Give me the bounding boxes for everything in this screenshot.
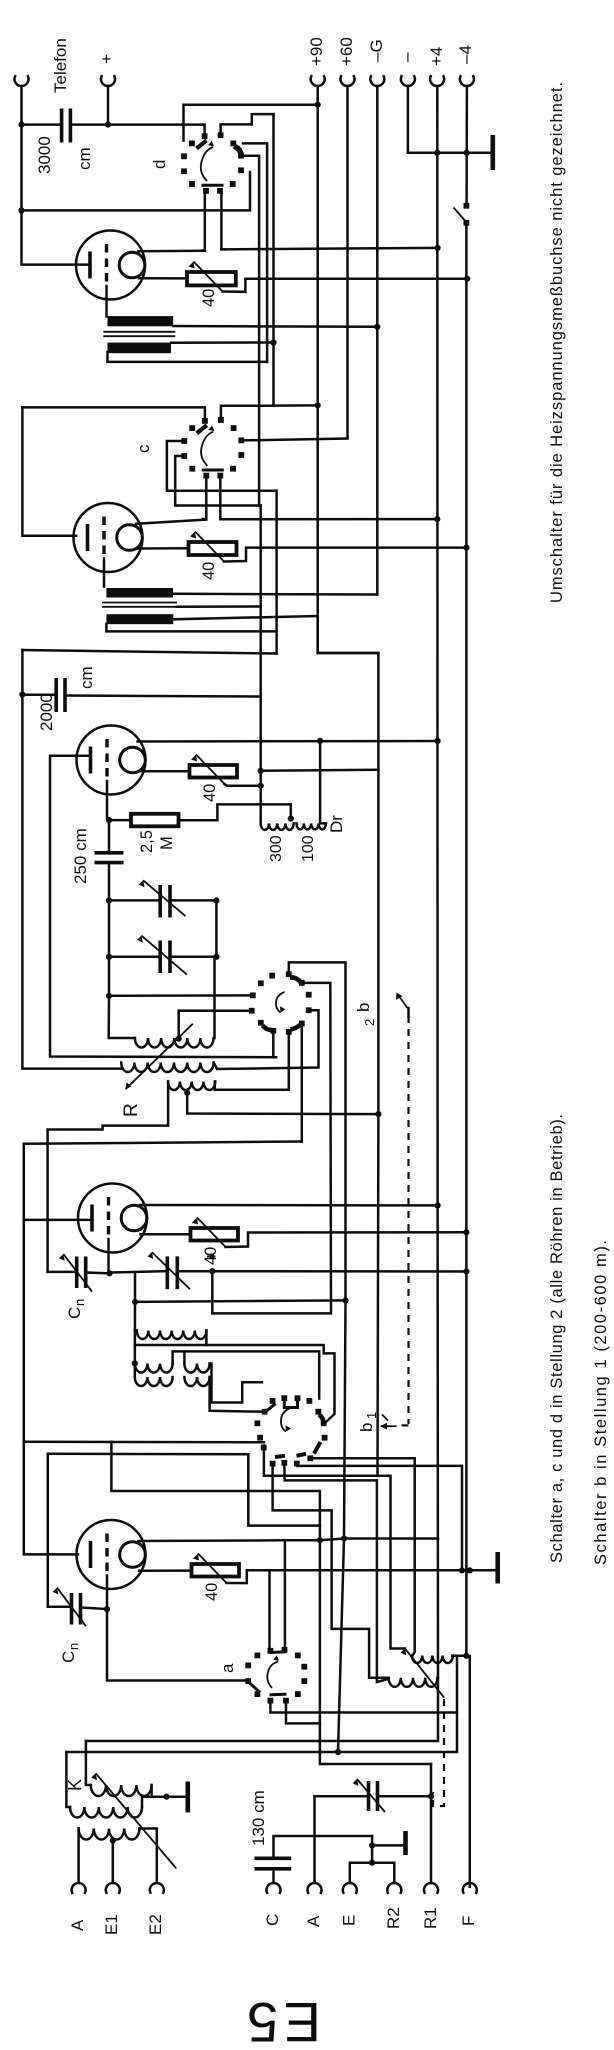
wire rheostat5 wiper right xyxy=(227,1570,247,1583)
wire b1 stem A down xyxy=(264,1446,405,1649)
wire +90 bus vertical xyxy=(318,86,379,1476)
variable capacitor B arrow xyxy=(141,936,187,975)
terminal C xyxy=(267,1883,281,1893)
resistor 40 no2 xyxy=(189,542,237,555)
socket a blade bottom xyxy=(271,1693,285,1697)
wire coil column down xyxy=(134,1302,137,1377)
wire socket d bottom stem 2 xyxy=(221,194,224,250)
svg-text:Telefon: Telefon xyxy=(51,38,70,93)
choke Dr winding 300 xyxy=(261,823,294,830)
coil L2 regen xyxy=(121,1063,213,1073)
svg-text:c: c xyxy=(134,444,153,453)
wire trimmer node up to 1764 xyxy=(430,1764,433,1796)
wire +90 staircase to riser xyxy=(261,770,379,771)
wire T2 secondary left lead staircase xyxy=(106,624,276,631)
trimmer cap plates xyxy=(367,1781,371,1811)
wire b2 right-top contact down xyxy=(212,983,331,1314)
node filament col junction xyxy=(335,1749,341,1755)
node wiper2 -4 xyxy=(463,545,469,551)
wire b2 top contact staircase right xyxy=(289,962,346,1752)
wire K primary riser xyxy=(86,1741,91,1785)
socket b2 contacts xyxy=(249,971,312,1035)
terminal Telefon right (+) xyxy=(101,76,115,86)
wire tube1 filament bottom to rheostat xyxy=(139,277,187,280)
wire K row3 right to E2 xyxy=(139,1829,156,1884)
node +90 at socket c feed xyxy=(315,402,321,408)
svg-text:n: n xyxy=(72,1299,87,1306)
terminal R2 xyxy=(387,1883,401,1893)
capacitor Cn2 plates xyxy=(70,1593,74,1625)
wire H1 branch to socket a loop xyxy=(111,1442,431,1764)
node filament3 +4 xyxy=(435,738,441,744)
node chassis -4 junction xyxy=(467,1567,473,1573)
wire +60 bus vertical xyxy=(346,86,349,438)
resistor 40 no3 xyxy=(190,765,238,778)
coil K row2 xyxy=(70,1807,142,1818)
svg-text:n: n xyxy=(66,1643,81,1650)
node staircase junction 1114 xyxy=(375,1111,381,1117)
terminal -4 xyxy=(460,76,474,86)
node L1 tap xyxy=(176,1036,182,1042)
node T1 riser junction xyxy=(270,339,276,345)
variable capacitor A plates xyxy=(158,885,162,918)
terminal R1 xyxy=(424,1883,438,1893)
wire K row2 right up to ground node xyxy=(142,1797,167,1807)
wire socket d right-upper contact down bundle xyxy=(243,156,259,506)
node +90 top junction xyxy=(315,102,321,108)
tube V4 xyxy=(78,1184,147,1253)
wire socket d top-right contact jog xyxy=(221,114,274,132)
resistor 2,5 M xyxy=(131,814,179,827)
wire tube2 filament bottom to rheostat xyxy=(137,547,189,550)
coil M-B right xyxy=(184,1364,209,1373)
arrow gang b1 xyxy=(397,1424,409,1426)
svg-text:E1: E1 xyxy=(102,1914,121,1935)
terminal A2 xyxy=(308,1883,322,1893)
wire Cn2 link xyxy=(48,1606,72,1609)
svg-text:Schalter b in Stellung 1 (200-: Schalter b in Stellung 1 (200-600 m). xyxy=(592,1240,610,1565)
node varcap pair bottom junction xyxy=(106,954,112,960)
capacitor 130cm plates xyxy=(255,1857,292,1861)
svg-text:F: F xyxy=(459,1916,478,1926)
wire chassis lead bottom xyxy=(372,1844,403,1847)
terminal E1 xyxy=(106,1883,120,1893)
wire 1752 to ant riser xyxy=(338,1713,457,1753)
svg-text:40: 40 xyxy=(200,289,218,307)
trimmer arrow xyxy=(357,1779,385,1812)
wire tube3 filament top to +4 xyxy=(138,740,438,743)
wire 2000cm right to riser xyxy=(65,696,261,697)
node a-stem wire junction xyxy=(317,1537,323,1543)
wire T2 top right to -G xyxy=(173,593,377,596)
socket b1 top bracket blade xyxy=(284,1402,297,1408)
wire varcap B left xyxy=(109,956,160,959)
socket b1 blade bottom-left xyxy=(275,1456,285,1457)
wire loop below varcap C xyxy=(134,1273,137,1302)
transformer T1 core lines xyxy=(103,331,175,333)
wire socket a stem1 xyxy=(270,1656,457,1712)
wire rheostat3 wiper to riser xyxy=(225,784,261,786)
wire T1 bottom left lead xyxy=(108,352,268,362)
variable capacitor C plates xyxy=(166,1256,170,1289)
wire tube5 filament bottom to rheostat xyxy=(139,1569,192,1572)
socket b2 blade bottom right xyxy=(291,1025,301,1030)
socket a blade top xyxy=(271,1650,285,1654)
node S3 2000cm junction xyxy=(19,691,25,697)
wire varcap right bus down to coil xyxy=(215,900,217,1038)
wire S1 to socket d lower right contact xyxy=(23,172,250,210)
socket a blade left diag xyxy=(251,1684,260,1692)
terminal +60 xyxy=(341,76,355,86)
svg-text:K: K xyxy=(65,1779,85,1791)
variable capacitor B plates xyxy=(158,941,162,974)
node filament +4 xyxy=(435,245,441,251)
chassis bar top right xyxy=(490,135,495,170)
terminal A xyxy=(72,1883,86,1893)
wire L3 left end wrap to Cn riser xyxy=(48,1082,169,1272)
switch in -4 line xyxy=(464,203,470,209)
arrow R variometer xyxy=(126,1024,193,1089)
wire rail S3 xyxy=(22,650,121,1069)
chassis bar mid xyxy=(495,1552,500,1584)
wire 130cm top to E node xyxy=(274,1836,373,1857)
node L3 tap xyxy=(184,1090,190,1096)
node K ground junction xyxy=(164,1794,170,1800)
node wiper4 -4 xyxy=(463,1229,469,1235)
wire anode branch y1141 xyxy=(24,1142,302,1144)
transformer T2 primary bar xyxy=(106,588,173,598)
node filament5 junction xyxy=(341,1535,347,1541)
wire grid line down to 250cm xyxy=(108,820,111,851)
capacitor 2000 cm plates xyxy=(54,678,58,712)
svg-text:Schalter a, c und d in Stellun: Schalter a, c und d in Stellung 2 (alle … xyxy=(548,1114,566,1563)
wire b1 stem D staircase to ant coil xyxy=(273,1466,389,1677)
svg-text:E 5: E 5 xyxy=(247,1991,321,2050)
wire E R2 bridge xyxy=(350,1863,395,1883)
wire coil A right down to y1345 xyxy=(205,1331,208,1346)
capacitor Cn1 plates xyxy=(75,1257,79,1289)
wire coil B left-right bridge xyxy=(173,1351,320,1398)
coil M-A top xyxy=(137,1331,207,1340)
svg-text:100: 100 xyxy=(300,835,317,862)
terminal F xyxy=(463,1883,477,1893)
wire socket d bottom stem 1 xyxy=(202,194,205,251)
wire varcap B right xyxy=(170,956,216,959)
wire socket c right-upper to +60 xyxy=(243,439,347,441)
wire rheostat2 wiper to -4 xyxy=(224,548,466,562)
node tube4 grid junction xyxy=(106,1270,112,1276)
wire socket a stem2 branch xyxy=(288,1722,320,1725)
wire tube4 grid down xyxy=(107,1239,110,1273)
socket b1 contacts xyxy=(255,1395,328,1466)
node grid coil junction xyxy=(106,993,112,999)
node minus/+4 crossing xyxy=(434,150,440,156)
wire 130cm bottom to C xyxy=(272,1871,275,1884)
node varcap B right junction xyxy=(213,954,219,960)
svg-text:cm: cm xyxy=(75,147,94,170)
wire socket c left contacts wrap-around lower xyxy=(175,456,261,506)
wire b1 stem B down xyxy=(284,1466,388,1683)
wire b2 bottom-left stem to anode line xyxy=(273,1034,276,1058)
node S1 cap junction xyxy=(18,122,24,128)
socket c contacts ring xyxy=(181,417,244,479)
wire T1 top right to -G xyxy=(173,325,375,328)
Cn2 arrow xyxy=(57,1588,86,1627)
wire socket c feed from +90 xyxy=(274,404,317,407)
svg-text:Dr: Dr xyxy=(327,815,346,833)
wire varcap C right to -4 xyxy=(177,1270,466,1273)
wire E R2 node xyxy=(371,1836,374,1863)
wire T2 core tap line xyxy=(177,605,261,608)
wire Dr tap to grid leak xyxy=(179,804,291,820)
wire tube3 grid down xyxy=(106,781,109,819)
node filament2 +4 xyxy=(434,516,440,522)
svg-text:b: b xyxy=(354,1003,373,1012)
wire K row1 right to ground xyxy=(152,1785,167,1797)
svg-text:E: E xyxy=(340,1915,359,1926)
wire K row3 tap to E1 xyxy=(112,1841,115,1884)
svg-text:d: d xyxy=(150,160,169,169)
tube V2 xyxy=(74,503,143,572)
dashed gang line b2 xyxy=(407,1016,409,1424)
wire varcap C vertical to coils xyxy=(211,1271,214,1313)
svg-text:E2: E2 xyxy=(146,1914,165,1935)
node ant -4 junction xyxy=(463,1653,469,1659)
svg-text:130 cm: 130 cm xyxy=(249,1790,268,1846)
svg-text:300: 300 xyxy=(268,835,285,862)
wire -4 bus upper xyxy=(465,86,468,203)
node grid 2,5M junction xyxy=(106,817,112,823)
wire coil E right staircase to b1 xyxy=(210,1377,263,1412)
wire chassis line xyxy=(247,1569,496,1572)
wire tube1 grid to transformer xyxy=(105,286,108,317)
svg-text:+: + xyxy=(97,54,116,64)
capacitor 250 cm plates xyxy=(95,851,124,855)
wire grid down to coil1 xyxy=(109,996,135,1038)
wire tuned line to varcap C xyxy=(110,1271,166,1272)
node -G transformer1 junction xyxy=(374,324,380,330)
terminal +4 xyxy=(430,76,444,86)
svg-text:2: 2 xyxy=(362,1019,377,1026)
variable capacitor A arrow xyxy=(143,880,185,916)
svg-text:+4: +4 xyxy=(427,47,446,66)
wire L1 tap to b2 xyxy=(179,1011,250,1039)
wire b1 stem C down to a-loop xyxy=(298,1466,463,1571)
wire 2,5M left to grid line xyxy=(109,819,131,822)
wire tube5 filament top to +4col xyxy=(139,1539,439,1542)
node chassis b1stemA junction xyxy=(459,1567,465,1573)
wire tube3 filament bottom to rheostat xyxy=(138,770,190,773)
wire K row2 line right xyxy=(66,1751,334,1754)
wire H2 Cn2 link xyxy=(48,1454,320,1526)
wire L3 tap down right xyxy=(187,1093,378,1114)
coil L1 variometer top xyxy=(135,1038,214,1048)
wire +4 bus vertical xyxy=(86,86,438,1741)
node telefon+ junction xyxy=(105,122,111,128)
node trimmer R1 junction xyxy=(428,1793,434,1799)
wire T2 secondary right lead xyxy=(173,616,317,653)
dashed link ant to trimmer xyxy=(433,1699,444,1806)
node b2 staircase junction xyxy=(342,1297,348,1303)
wire tube2 filament top to +4 xyxy=(136,520,206,524)
svg-text:2,5: 2,5 xyxy=(138,830,156,853)
coil ant bottom xyxy=(389,1678,438,1687)
wire b1 right contact to ant coil xyxy=(313,1458,415,1655)
node E R2 bridge xyxy=(369,1860,375,1866)
socket c blade top-left xyxy=(197,425,207,433)
wire rail S1 telefon xyxy=(22,86,91,265)
wire -G bus vertical xyxy=(376,86,379,595)
socket b1 blade upper-left xyxy=(267,1405,275,1411)
terminal E xyxy=(343,1883,357,1893)
wire grid line to b2 contact xyxy=(109,994,251,997)
wire varcap A left xyxy=(109,899,160,902)
svg-text:+60: +60 xyxy=(337,37,356,66)
svg-text:–4: –4 xyxy=(456,45,475,64)
svg-text:R1: R1 xyxy=(421,1907,440,1929)
capacitor 3000 cm plates xyxy=(60,109,64,143)
socket d blade bottom xyxy=(203,184,222,187)
wire b1 lower-left contact wire xyxy=(47,1454,50,1607)
coil L3 coupling xyxy=(168,1082,215,1091)
node E R2 chassis junction xyxy=(369,1842,375,1848)
wire tube5 grid down xyxy=(107,1576,248,1681)
svg-text:a: a xyxy=(218,1663,237,1673)
svg-text:–: – xyxy=(397,52,416,62)
svg-text:M: M xyxy=(158,836,176,850)
wire bundle x259 down to riser junction xyxy=(259,506,261,824)
socket b1 blade bottom-right xyxy=(297,1454,307,1456)
svg-text:2000: 2000 xyxy=(37,693,56,731)
resistor 40 no5 xyxy=(192,1564,240,1577)
wire tube2 grid to T2 xyxy=(103,559,106,587)
socket d wiper arrow xyxy=(201,147,213,181)
node riser +90 junction xyxy=(258,768,264,774)
wire ant top right to -4 xyxy=(452,1655,466,1658)
wire tube4 filament top to +4 xyxy=(140,1204,438,1207)
coil M-B left xyxy=(135,1364,173,1373)
variable capacitor C arrow xyxy=(152,1252,190,1289)
wire socket c bottom stems xyxy=(203,478,206,519)
wire y1301 link xyxy=(135,1300,346,1302)
wire +90 jog horizontal xyxy=(318,652,379,655)
wire trimmer A lead xyxy=(315,1796,367,1883)
wire varcap A right xyxy=(170,899,216,902)
node Dr tap xyxy=(288,816,294,822)
wire minus stub xyxy=(407,86,410,153)
wire K row3 left to A xyxy=(77,1829,80,1884)
svg-text:C: C xyxy=(65,1307,84,1319)
terminal -G xyxy=(370,76,384,86)
arrow K variometer xyxy=(96,1773,177,1868)
wire ant bottom right to +4col xyxy=(436,1677,439,1680)
tube V1 xyxy=(76,231,145,300)
wire +90 to socket d xyxy=(184,105,317,141)
wire riser to socket c top right xyxy=(221,114,274,417)
resistor 40 no4 xyxy=(191,1228,239,1241)
wire socket d right-top contact to bundle xyxy=(243,143,267,362)
wire K row2 riser xyxy=(66,1752,70,1807)
node coil B left junction xyxy=(132,1360,138,1366)
svg-text:1: 1 xyxy=(364,1412,379,1419)
wire coil D right staircase to stub xyxy=(210,1364,262,1403)
wire b2 lower-right stem down xyxy=(301,1026,304,1141)
svg-text:Umschalter für die Heizspannun: Umschalter für die Heizspannungsmeßbuchs… xyxy=(548,82,566,603)
wire rheostat4 wiper to -4 xyxy=(226,1232,467,1247)
node varcap pair top junction xyxy=(106,897,112,903)
wire socket c left contacts wrap-around upper xyxy=(167,441,277,654)
node wiper1 -4 xyxy=(464,276,470,282)
svg-text:250 cm: 250 cm xyxy=(71,828,90,884)
wire socket a stem2 xyxy=(285,1703,288,1723)
socket b1 blade right curved xyxy=(319,1415,324,1422)
svg-text:40: 40 xyxy=(201,784,219,802)
socket c wiper arrow xyxy=(201,432,213,466)
svg-text:R2: R2 xyxy=(384,1907,403,1929)
wire rheostat1 wiper to -4 xyxy=(223,279,468,292)
wire tube4 anode lead xyxy=(24,1219,92,1222)
svg-text:C: C xyxy=(59,1651,78,1663)
transformer T2 secondary bar xyxy=(106,614,173,624)
tube V3 xyxy=(77,726,146,795)
svg-text:+90: +90 xyxy=(307,37,326,66)
svg-text:A: A xyxy=(68,1919,87,1931)
wire grid line below 250cm xyxy=(108,864,111,996)
wire tube1 filament top to +4 xyxy=(139,249,205,252)
wire socket a top-left stem xyxy=(268,1570,271,1647)
terminal minus xyxy=(401,76,415,86)
wire y1345 to b1 xyxy=(135,1345,335,1422)
wire L2 right end to b2 wrap xyxy=(214,1010,319,1069)
terminal E2 xyxy=(150,1883,164,1893)
node Dr riser on filament wire xyxy=(317,738,323,744)
socket c blade bottom xyxy=(203,469,222,472)
socket b2 blade top right xyxy=(290,977,301,983)
wire T1 bottom right to socket c riser xyxy=(171,341,274,344)
coil M-C right xyxy=(184,1377,209,1386)
wire long left link y650 xyxy=(22,650,276,654)
socket d blade top-left xyxy=(197,141,207,149)
wire H1 anode to b1 contact xyxy=(24,1441,264,1444)
coil M-C left xyxy=(135,1377,173,1386)
arrow gang b2 xyxy=(407,1008,410,1016)
transformer T1 primary bar xyxy=(108,316,174,326)
wire S4 anode rail xyxy=(24,1144,78,1555)
choke Dr winding 100 xyxy=(297,823,326,829)
svg-text:3000: 3000 xyxy=(35,136,54,174)
node loop junction xyxy=(132,1299,138,1305)
svg-text:–G: –G xyxy=(367,39,386,62)
svg-text:40: 40 xyxy=(200,562,218,580)
socket b2 blade bottom left xyxy=(263,1026,273,1031)
wire coil A left vertical xyxy=(135,1329,137,1332)
svg-text:A: A xyxy=(304,1915,323,1927)
wire cap line to socket d xyxy=(23,123,62,126)
socket a wiper arrow xyxy=(267,1662,278,1689)
wire rail S2 xyxy=(22,407,76,535)
wire socket a top-right stem xyxy=(284,1540,287,1646)
coil K row3 secondary xyxy=(79,1829,140,1840)
wire -4 bus lower xyxy=(466,225,469,1888)
wire L3 right end to b2 stem xyxy=(215,1035,289,1090)
svg-text:C: C xyxy=(263,1914,282,1926)
terminal +90 xyxy=(311,76,325,86)
terminal Telefon left xyxy=(15,76,29,86)
wire coil D left riser xyxy=(183,1351,186,1363)
node filament4 +4 xyxy=(435,1202,441,1208)
node S1 switch-wire junction xyxy=(18,207,24,213)
node grid Cn2 junction xyxy=(104,1606,110,1612)
